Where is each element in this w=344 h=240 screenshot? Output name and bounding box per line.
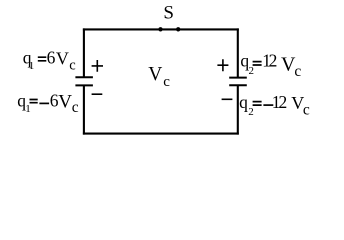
- svg-text:1: 1: [29, 60, 35, 72]
- svg-text:V: V: [148, 64, 162, 85]
- svg-text:c: c: [72, 99, 79, 116]
- svg-text:2: 2: [249, 65, 255, 77]
- svg-text:6: 6: [47, 47, 56, 67]
- svg-text:c: c: [303, 102, 310, 119]
- svg-text:V: V: [58, 91, 72, 112]
- svg-text:2: 2: [248, 106, 254, 118]
- svg-text:q: q: [239, 92, 248, 112]
- svg-text:c: c: [163, 74, 170, 90]
- svg-text:c: c: [69, 58, 75, 74]
- svg-text:V: V: [56, 48, 69, 68]
- svg-text:S: S: [163, 3, 174, 24]
- svg-text:2: 2: [279, 92, 288, 112]
- svg-text:2: 2: [269, 50, 278, 70]
- svg-text:c: c: [294, 63, 301, 80]
- svg-text:1: 1: [25, 103, 31, 115]
